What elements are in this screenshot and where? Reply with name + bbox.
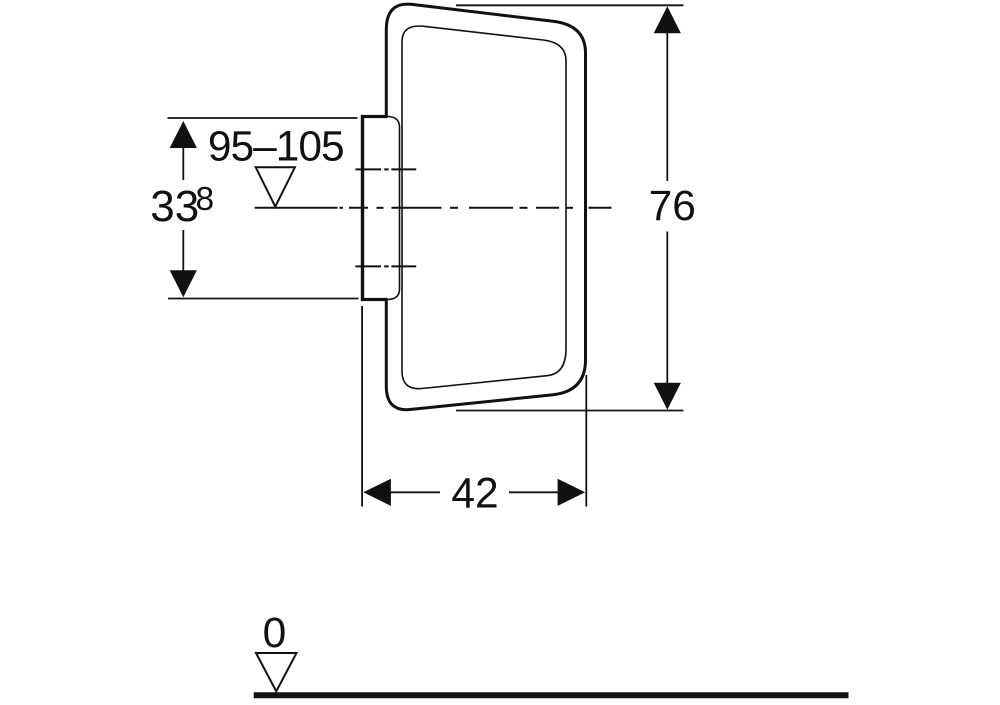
svg-text:95–105: 95–105 xyxy=(208,124,344,171)
svg-text:42: 42 xyxy=(451,471,498,518)
svg-text:33: 33 xyxy=(150,182,199,231)
svg-text:0: 0 xyxy=(263,610,287,657)
svg-text:76: 76 xyxy=(649,183,696,230)
svg-text:8: 8 xyxy=(196,181,215,218)
